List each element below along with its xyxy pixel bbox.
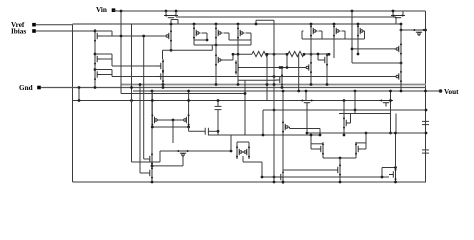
- wire: [343, 130, 345, 135]
- transistor M24: [146, 152, 154, 166]
- wire: [229, 39, 251, 41]
- wire: [224, 32, 230, 34]
- transistor M29: [282, 120, 290, 134]
- wire: [350, 114, 352, 124]
- wire mid bus lower: [133, 90, 426, 92]
- node: [162, 83, 165, 86]
- wire: [302, 30, 304, 32]
- node: [139, 83, 142, 86]
- node: [172, 119, 175, 122]
- wire: [162, 70, 164, 73]
- wire: [351, 11, 353, 63]
- wire: [395, 114, 397, 134]
- node: [389, 99, 392, 102]
- wire: [215, 67, 217, 85]
- transistor M28: [243, 145, 251, 159]
- node rail tap: [357, 23, 360, 26]
- node: [217, 130, 220, 133]
- wire gate: [238, 79, 277, 81]
- node: [286, 53, 289, 56]
- wire: [402, 11, 404, 16]
- transistor M15: [305, 61, 313, 75]
- svg-text:Vin: Vin: [96, 6, 107, 14]
- wire M2 diode: [95, 53, 112, 55]
- wire: [364, 31, 366, 39]
- pin Vref: [32, 23, 36, 27]
- node: [237, 53, 240, 56]
- wire: [273, 20, 275, 183]
- wire: [256, 19, 274, 21]
- transistor M27: [236, 145, 244, 159]
- node rail tap: [237, 23, 240, 26]
- wire: [189, 130, 206, 132]
- wire: [188, 91, 190, 113]
- node rail tap: [333, 23, 336, 26]
- wire: [121, 93, 245, 95]
- wire: [208, 130, 218, 132]
- wire: [232, 54, 234, 60]
- wire Vin rail: [116, 10, 426, 12]
- wire: [261, 162, 263, 177]
- node: [351, 48, 354, 51]
- wire: [162, 84, 164, 88]
- wire: [395, 133, 397, 168]
- wire: [242, 156, 244, 162]
- wire: [392, 11, 394, 16]
- wire: [208, 134, 320, 136]
- node: [230, 150, 233, 153]
- transistor M10: [412, 29, 426, 36]
- node: [343, 134, 346, 137]
- node: [394, 132, 397, 135]
- wire: [160, 150, 176, 152]
- node: [273, 53, 276, 56]
- node: [237, 83, 240, 86]
- node: [206, 39, 209, 42]
- wire: [139, 85, 141, 174]
- wire: [357, 38, 359, 54]
- wire: [240, 67, 306, 69]
- transistor M5: [215, 26, 223, 40]
- wire: [354, 91, 356, 110]
- wire gate: [290, 128, 321, 130]
- node: [120, 10, 123, 13]
- wire Vref feed: [36, 24, 73, 26]
- node: [261, 176, 264, 179]
- wire: [400, 24, 402, 42]
- capacitor C2: [205, 128, 208, 135]
- wire: [319, 129, 321, 136]
- wire M2b diode: [111, 70, 113, 75]
- svg-text:Gnd: Gnd: [19, 84, 33, 92]
- resistor R1: [252, 51, 268, 56]
- wire bias gate bus2: [112, 76, 395, 78]
- node: [389, 90, 392, 93]
- node: [244, 92, 247, 95]
- node: [266, 83, 269, 86]
- wire: [152, 165, 183, 167]
- node: [389, 132, 392, 135]
- wire: [246, 32, 252, 34]
- wire M2b diode: [95, 69, 112, 71]
- wire: [326, 53, 328, 54]
- wire: [230, 135, 232, 151]
- wire M1 diode: [111, 31, 113, 36]
- wire: [78, 88, 80, 101]
- wire: [310, 54, 312, 60]
- wire: [318, 59, 325, 61]
- node: [319, 134, 322, 137]
- wire: [188, 127, 190, 131]
- wire: [111, 75, 113, 77]
- wire: [401, 29, 412, 31]
- node: [339, 181, 342, 184]
- node: [282, 90, 285, 93]
- wire top inner rail: [176, 16, 396, 18]
- transistor M33: [334, 163, 342, 177]
- node: [354, 90, 357, 93]
- node: [232, 53, 235, 56]
- node: [217, 99, 220, 102]
- node: [354, 109, 357, 112]
- wire: [236, 142, 238, 145]
- wire: [206, 33, 208, 40]
- transistor M1: [94, 29, 102, 43]
- wire: [395, 17, 397, 24]
- node rail tap: [193, 23, 196, 26]
- transistor M19a: [395, 42, 403, 56]
- wire: [305, 91, 307, 101]
- wire gate bus: [202, 32, 208, 34]
- wire: [365, 133, 367, 149]
- wire: [188, 150, 231, 152]
- wire: [215, 40, 217, 53]
- transistor M12b: [157, 70, 165, 84]
- wire M1 diode: [102, 35, 113, 37]
- node: [305, 90, 308, 93]
- wire: [94, 66, 96, 70]
- wire: [193, 24, 195, 26]
- wire: [193, 40, 195, 45]
- wire: [140, 172, 150, 174]
- transistor M31: [317, 142, 325, 156]
- wire left border: [72, 24, 74, 182]
- transistor M8: [333, 24, 341, 38]
- svg-text:Ibias: Ibias: [11, 28, 26, 36]
- wire: [159, 119, 182, 121]
- wire: [266, 54, 268, 100]
- wire Vin stub: [114, 10, 118, 13]
- wire: [151, 91, 153, 113]
- wire: [94, 82, 96, 88]
- transistor M4a: [165, 29, 173, 43]
- wire: [382, 167, 396, 169]
- wire: [268, 53, 288, 55]
- node: [343, 99, 346, 102]
- wire: [311, 143, 323, 145]
- transistor M12: [157, 59, 165, 73]
- wire: [310, 38, 312, 54]
- wire: [73, 100, 385, 102]
- wire: [381, 168, 383, 178]
- wire: [282, 170, 284, 177]
- node: [130, 86, 133, 89]
- node: [151, 99, 154, 102]
- wire gate bus: [283, 169, 338, 171]
- node: [170, 49, 173, 52]
- wire: [310, 75, 312, 85]
- wire: [311, 148, 318, 150]
- wire: [182, 157, 184, 166]
- node: [281, 86, 284, 89]
- wire M2 diode: [102, 58, 113, 60]
- transistor M22: [151, 113, 159, 127]
- capacitor C4: [422, 150, 429, 153]
- node: [310, 83, 313, 86]
- node: [151, 165, 154, 168]
- transistor M2b: [94, 68, 102, 82]
- transistor M3: [164, 15, 178, 18]
- wire: [282, 91, 284, 120]
- wire: [163, 49, 213, 51]
- node: [151, 126, 154, 129]
- node: [310, 53, 313, 56]
- transistor M30: [343, 116, 351, 130]
- node: [394, 166, 397, 169]
- node: [78, 99, 81, 102]
- node Vout: [424, 90, 427, 93]
- wire: [194, 39, 207, 41]
- wire: [319, 30, 323, 32]
- wire: [298, 54, 300, 91]
- wire: [343, 101, 345, 117]
- node: [273, 181, 276, 184]
- transistor M14: [235, 61, 243, 75]
- wire: [237, 141, 249, 143]
- transistor M9: [357, 24, 365, 38]
- wire: [424, 29, 426, 31]
- node: [351, 10, 354, 13]
- node: [78, 86, 81, 89]
- wire: [165, 11, 167, 15]
- wire: [317, 54, 319, 60]
- transistor M20: [379, 100, 393, 107]
- wire: [250, 40, 252, 45]
- pin Vin: [112, 8, 116, 12]
- transistor M7: [310, 24, 318, 38]
- node: [215, 83, 218, 86]
- wire: [339, 158, 341, 165]
- wire: [237, 24, 239, 26]
- wire Vdd rail: [73, 23, 402, 25]
- node: [400, 90, 403, 93]
- wire: [289, 127, 291, 129]
- wire: [151, 91, 153, 182]
- node: [286, 66, 289, 69]
- wire: [255, 20, 257, 24]
- node: [310, 134, 313, 137]
- wire: [237, 54, 239, 84]
- wire: [355, 156, 357, 158]
- node: [266, 53, 269, 56]
- wire bottom border: [73, 181, 427, 183]
- wire mid bus upper: [121, 84, 426, 86]
- wire M2 diode: [111, 54, 113, 59]
- resistor R2: [288, 51, 304, 56]
- wire: [357, 23, 359, 26]
- wire: [323, 157, 356, 159]
- node: [187, 90, 190, 93]
- node Ibias in: [94, 30, 97, 33]
- node: [317, 53, 320, 56]
- pin Vout: [439, 89, 443, 93]
- node: [281, 66, 284, 69]
- wire: [159, 151, 161, 162]
- wire: [144, 158, 150, 160]
- node: [175, 10, 178, 13]
- node: [326, 83, 329, 86]
- node: [262, 134, 265, 137]
- wire: [132, 161, 161, 163]
- node: [306, 132, 309, 135]
- transistor M26: [176, 150, 190, 157]
- node: [297, 90, 300, 93]
- transistor M11: [391, 15, 405, 18]
- node: [170, 23, 173, 26]
- wire right border Vout line: [425, 11, 427, 182]
- wire: [352, 62, 401, 64]
- node: [279, 66, 282, 69]
- svg-text:Vout: Vout: [444, 88, 459, 96]
- transistor M13: [215, 53, 223, 67]
- wire: [172, 120, 174, 143]
- wire: [262, 176, 389, 178]
- transistor M17: [276, 73, 284, 87]
- wire Vin drop: [120, 11, 122, 94]
- transistor M34: [277, 170, 285, 184]
- node: [425, 109, 428, 112]
- node: [400, 29, 403, 32]
- wire: [143, 36, 145, 159]
- wire: [217, 101, 219, 107]
- wire: [194, 44, 251, 46]
- wire: [395, 181, 397, 184]
- transistor M21: [300, 100, 314, 107]
- node: [120, 35, 123, 38]
- node: [400, 62, 403, 65]
- transistor M19b: [395, 70, 403, 84]
- wire: [354, 110, 356, 114]
- node: [215, 44, 218, 47]
- wire: [281, 68, 283, 74]
- wire: [217, 110, 219, 135]
- wire: [223, 59, 234, 61]
- wire: [339, 113, 391, 115]
- node: [273, 109, 276, 112]
- wire: [94, 43, 96, 54]
- node: [255, 23, 258, 26]
- pin Gnd: [37, 86, 41, 90]
- wire: [237, 40, 239, 54]
- node: [394, 181, 397, 184]
- wire: [171, 19, 178, 21]
- node: [130, 99, 133, 102]
- wire: [131, 24, 133, 162]
- capacitor C1: [215, 106, 222, 109]
- transistor M2: [94, 52, 102, 66]
- wire gate bus: [302, 38, 365, 40]
- wire: [211, 45, 213, 50]
- wire: [244, 80, 246, 135]
- node: [142, 35, 145, 38]
- wire Gnd bus: [41, 87, 426, 89]
- wire: [215, 24, 217, 26]
- wire: [162, 50, 164, 59]
- wire: [228, 33, 230, 40]
- node: [162, 86, 165, 89]
- wire: [310, 135, 312, 149]
- wire: [177, 20, 179, 25]
- wire: [321, 31, 323, 39]
- node: [151, 90, 154, 93]
- node: [94, 86, 97, 89]
- wire: [307, 132, 426, 134]
- wire: [333, 38, 335, 58]
- transistor M16: [321, 53, 329, 67]
- node: [187, 126, 190, 129]
- node: [424, 29, 427, 32]
- node: [303, 53, 306, 56]
- node: [273, 75, 276, 78]
- wire: [243, 161, 262, 163]
- wire: [390, 91, 392, 133]
- transistor M23: [182, 113, 190, 127]
- wire: [152, 126, 188, 128]
- wire: [361, 148, 366, 150]
- wire: [262, 110, 264, 135]
- node: [365, 132, 368, 135]
- node rail tap: [215, 23, 218, 26]
- wire: [356, 142, 366, 144]
- wire: [263, 109, 426, 111]
- transistor M35: [389, 168, 397, 182]
- node rail tap: [310, 23, 313, 26]
- node: [94, 53, 97, 56]
- node: [425, 132, 428, 135]
- node: [94, 68, 97, 71]
- wire: [344, 31, 346, 39]
- wire: [282, 182, 284, 184]
- wire: [306, 106, 308, 133]
- wire Vout stub: [426, 90, 441, 92]
- node: [357, 53, 360, 56]
- node ground tie: [151, 181, 154, 184]
- wire: [322, 142, 324, 144]
- transistor M25: [146, 166, 154, 180]
- node: [328, 53, 331, 56]
- wire: [304, 53, 330, 55]
- wire: [333, 23, 335, 26]
- wire M2b diode: [102, 74, 113, 76]
- node: [165, 10, 168, 13]
- node: [392, 10, 395, 13]
- wire: [322, 156, 324, 158]
- wire: [301, 31, 303, 39]
- wire: [248, 142, 250, 145]
- node: [273, 176, 276, 179]
- wire M1 diode: [95, 30, 112, 32]
- transistor M4: [193, 26, 201, 40]
